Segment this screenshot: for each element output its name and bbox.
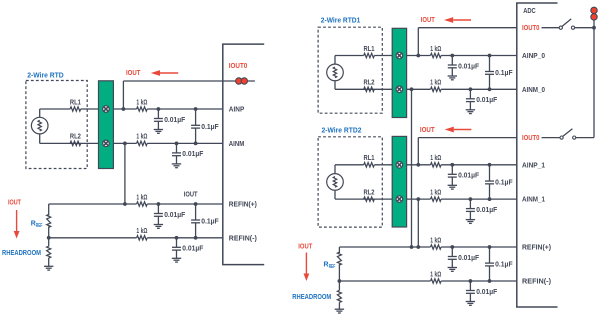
svg-text:0.01µF: 0.01µF (458, 173, 480, 180)
junction cap AINP_1 (450, 163, 454, 167)
wire row AINM_1 left segment (335, 198, 431, 200)
svg-text:0.01µF: 0.01µF (476, 207, 498, 214)
svg-text:IOUT: IOUT (8, 200, 22, 207)
junction 0.1uF REFIN+ (right) (488, 245, 492, 249)
IOUT top wire (right ch1) (418, 137, 517, 139)
svg-text:1 kΩ: 1 kΩ (430, 80, 441, 87)
junction switch ch0 to bus (592, 26, 596, 30)
svg-text:ADC: ADC (523, 8, 536, 15)
IOUT arrow ch0 (453, 19, 471, 21)
svg-text:0.1µF: 0.1µF (495, 180, 513, 187)
left RTD dashed box (26, 81, 87, 169)
svg-text:0.01µF: 0.01µF (476, 289, 498, 296)
wire RTD top stub (left) (39, 109, 41, 117)
RTD sensor (left) (31, 117, 48, 134)
svg-text:RHEADROOM: RHEADROOM (2, 250, 41, 257)
junction cap AINM (left) (175, 142, 179, 146)
junction bus REFIN+ a (410, 245, 414, 249)
mux cross symbol row AINM (left) (103, 140, 110, 147)
capacitor 0.01uF row AINM (left) (176, 143, 178, 153)
junction bus AINM_0 (410, 87, 414, 91)
capacitor 0.01uF REFIN+ (right) (451, 247, 453, 257)
wire AINM_0 to REFIN+ vertical bus (411, 89, 413, 247)
svg-text:IOUT0: IOUT0 (522, 135, 540, 142)
svg-text:AINM_0: AINM_0 (522, 87, 545, 94)
svg-text:RL2: RL2 (364, 189, 375, 196)
IOUT vertical stub (right ch1) (417, 138, 419, 165)
ADC partial box (right) (517, 3, 558, 307)
capacitor 0.1uF ch1 (489, 165, 491, 181)
capacitor 0.01uF AINM_0 (469, 89, 471, 99)
capacitor 0.1uF REFIN (right) (489, 247, 491, 263)
svg-text:1 kΩ: 1 kΩ (136, 194, 147, 201)
capacitor 0.01uF REFIN- (right) (469, 281, 471, 291)
RTD1 dashed box (318, 27, 382, 113)
resistor RL1 (RTD2) (364, 163, 375, 167)
svg-text:RL1: RL1 (364, 155, 375, 162)
svg-text:IOUT: IOUT (420, 127, 435, 134)
mux bar (left) (99, 81, 114, 169)
resistor 1k REFIN- (right) (430, 278, 441, 283)
wire row AINP right segment (147, 108, 223, 110)
capacitor 0.01uF REFIN+ (left) (157, 204, 159, 214)
ground RHEADROOM (left) (44, 265, 53, 267)
resistor RL2 (RTD2) (364, 197, 375, 201)
junction 0.1uF REFIN- (right) (488, 279, 492, 283)
svg-text:0.01µF: 0.01µF (458, 255, 480, 262)
wire AINM to REFIN+ vertical (left) (124, 143, 126, 204)
resistor 1k REFIN+ (left) (137, 201, 148, 206)
red terminal dot top (right) (591, 7, 597, 13)
capacitor 0.01uF AINM_1 (469, 199, 471, 209)
capacitor 0.01uF AINP_0 (451, 56, 453, 66)
junction cap REFIN- (right) (469, 279, 473, 283)
RTD2 sensor (327, 174, 344, 191)
svg-text:2-Wire RTD2: 2-Wire RTD2 (322, 125, 362, 134)
RTD1 sensor (327, 64, 344, 81)
IOUT arrow top (left) (160, 72, 178, 74)
svg-text:AINP_0: AINP_0 (522, 53, 545, 60)
resistor 1k REFIN+ (right) (430, 244, 441, 249)
IOUT vertical stub (right ch0) (417, 28, 419, 56)
mux bar (RTD2) (392, 136, 406, 227)
wire RTD2 bottom stub (334, 190, 336, 199)
wire REFIN- row (right) (339, 280, 516, 282)
wire REFIN+ row (right) (339, 246, 516, 248)
resistor RL2 (RTD1) (364, 87, 375, 91)
svg-text:1 kΩ: 1 kΩ (430, 155, 441, 162)
RTD2 dashed box (318, 137, 382, 227)
wire AINM_1 to REFIN+ vertical (417, 199, 419, 247)
resistor RREF (left) (48, 204, 50, 215)
junction bus2 AINM (left) (123, 142, 127, 146)
svg-text:REF: REF (36, 223, 43, 229)
svg-text:0.1µF: 0.1µF (201, 124, 219, 131)
capacitor 0.01uF REFIN- (left) (176, 238, 178, 248)
wire row AINP_0 left segment (335, 55, 364, 57)
junction stub AINM_1 (416, 197, 420, 201)
svg-text:REFIN(-): REFIN(-) (229, 235, 257, 242)
junction 0.1uF AINP_0 (488, 54, 492, 58)
wire row AINP left segment (40, 108, 70, 110)
svg-text:REFIN(-): REFIN(-) (522, 279, 551, 286)
IOUT0 pin stub with jumper (left) (223, 80, 255, 82)
wire row AINP_0 right segment (441, 55, 517, 57)
junction 0.1uF AINM_0 (488, 87, 492, 91)
wire REFIN- row (left) (49, 237, 223, 239)
svg-text:AINP: AINP (229, 107, 245, 114)
mux cross symbol AINP_1 (396, 162, 403, 169)
wire row AINM_0 left segment (335, 88, 431, 90)
svg-text:1 kΩ: 1 kΩ (430, 237, 441, 244)
svg-text:1 kΩ: 1 kΩ (430, 46, 441, 53)
svg-text:1 kΩ: 1 kΩ (430, 271, 441, 278)
red terminal dot bottom (right) (591, 14, 597, 20)
svg-text:0.1µF: 0.1µF (201, 218, 219, 225)
svg-text:1 kΩ: 1 kΩ (136, 134, 147, 141)
wire row AINM left segment (40, 142, 137, 144)
svg-text:AINM_1: AINM_1 (522, 197, 545, 204)
capacitor 0.1uF AINP-AINM (left) (195, 109, 197, 125)
mux cross symbol AINM_1 (396, 196, 403, 203)
switch IOUT0 ch1 (542, 137, 560, 139)
wire row AINP_1 left segment (335, 164, 364, 166)
IOUT down arrow (left) (16, 210, 18, 231)
right-side bus (593, 10, 595, 137)
mux cross symbol AINM_0 (396, 86, 403, 93)
capacitor 0.01uF row AINP (left) (157, 109, 159, 119)
svg-text:AINM: AINM (229, 141, 245, 148)
junction 0.1uF REFIN- (left) (194, 236, 198, 240)
junction cap AINP_0 (450, 54, 454, 58)
resistor 1k row AINM (left) (137, 141, 148, 145)
junction 0.1uF AINP (left) (194, 107, 198, 111)
wire row AINP_1 mid segment (374, 164, 430, 166)
svg-text:RL2: RL2 (364, 80, 375, 87)
junction IOUT-AINP_1 (416, 163, 420, 167)
IOUT top wire (left) (123, 80, 222, 82)
wire RTD2 top stub (334, 165, 336, 174)
switch IOUT0 ch0 (542, 27, 560, 29)
svg-text:AINP_1: AINP_1 (522, 162, 545, 169)
resistor 1k REFIN- (left) (137, 235, 148, 240)
svg-text:0.01µF: 0.01µF (164, 117, 186, 124)
wire RTD bottom stub (left) (39, 134, 41, 144)
svg-text:0.01µF: 0.01µF (182, 246, 204, 253)
resistor 1k AINP_0 (431, 53, 442, 57)
junction 0.1uF AINP_1 (488, 163, 492, 167)
resistor RREF (right) (338, 247, 340, 253)
red terminal dot 2 (left) (241, 78, 247, 84)
wire row AINP_1 right segment (441, 164, 517, 166)
wire RTD1 bottom stub (334, 81, 336, 90)
svg-text:REFIN(+): REFIN(+) (229, 202, 257, 209)
svg-text:0.1µF: 0.1µF (495, 70, 513, 77)
svg-text:0.01µF: 0.01µF (182, 151, 204, 158)
svg-text:0.1µF: 0.1µF (495, 262, 513, 269)
svg-text:IOUT: IOUT (298, 243, 313, 250)
resistor 1k AINM_0 (431, 87, 442, 91)
svg-text:1 kΩ: 1 kΩ (430, 189, 441, 196)
IOUT arrow ch1 (454, 129, 472, 131)
svg-text:REF: REF (329, 264, 336, 270)
svg-text:0.01µF: 0.01µF (476, 97, 498, 104)
junction RREF bottom (left) (47, 236, 51, 240)
svg-text:1 kΩ: 1 kΩ (136, 99, 147, 106)
junction 0.1uF AINM (left) (194, 142, 198, 146)
ground RHEADROOM (right) (335, 308, 344, 310)
ADC partial box (left) (223, 44, 264, 265)
svg-text:0.01µF: 0.01µF (458, 63, 480, 70)
svg-text:RHEADROOM: RHEADROOM (292, 294, 331, 301)
svg-text:RL2: RL2 (70, 134, 81, 141)
mux cross symbol AINP_0 (396, 52, 403, 59)
svg-text:IOUT0: IOUT0 (229, 63, 248, 70)
svg-text:IOUT: IOUT (126, 70, 141, 77)
resistor 1k AINP_1 (431, 163, 442, 167)
svg-text:RL1: RL1 (70, 99, 81, 106)
junction cap REFIN+ (right) (450, 245, 454, 249)
junction cap REFIN- (left) (175, 236, 179, 240)
resistor RL1 (RTD1) (364, 53, 375, 57)
svg-text:2-Wire RTD1: 2-Wire RTD1 (321, 16, 361, 25)
svg-text:0.01µF: 0.01µF (164, 212, 186, 219)
IOUT vertical stub (left) (122, 81, 124, 109)
wire row AINM_0 right segment (441, 88, 517, 90)
svg-text:1 kΩ: 1 kΩ (136, 228, 147, 235)
capacitor 0.1uF REFIN (left) (195, 204, 197, 220)
wire REFIN+ row (left) (49, 203, 223, 205)
wire row AINP_0 mid segment (374, 55, 430, 57)
svg-text:IOUT0: IOUT0 (522, 25, 540, 32)
junction RREF bottom (right) (338, 279, 342, 283)
junction cap REFIN+ (left) (157, 202, 161, 206)
IOUT top wire (right ch0) (418, 27, 517, 29)
svg-text:REFIN(+): REFIN(+) (522, 245, 551, 252)
mux cross symbol row AINP (left) (103, 106, 110, 113)
wire row AINM right segment (147, 142, 223, 144)
junction IOUT-AINP (left) (122, 107, 126, 111)
resistor RHEADROOM (right) (338, 281, 340, 290)
junction bus2 REFIN+ (left) (123, 202, 127, 206)
junction 0.1uF AINM_1 (488, 197, 492, 201)
resistor 1k AINM_1 (431, 197, 442, 201)
svg-text:2-Wire RTD: 2-Wire RTD (27, 71, 64, 80)
junction cap AINM_0 (469, 87, 473, 91)
junction cap AINP (left) (157, 107, 161, 111)
wire RTD1 top stub (334, 56, 336, 65)
junction cap AINM_1 (469, 197, 473, 201)
red terminal dot 1 (left) (236, 78, 242, 84)
capacitor 0.1uF ch0 (489, 56, 491, 72)
svg-text:RL1: RL1 (364, 46, 375, 53)
resistor RL1 (left) (70, 107, 81, 111)
junction bus REFIN+ b (416, 245, 420, 249)
mux bar (RTD1) (392, 28, 406, 117)
resistor RHEADROOM (left) (48, 238, 50, 246)
svg-text:IOUT: IOUT (184, 191, 198, 198)
resistor 1k row AINP (left) (137, 107, 148, 111)
wire row AINM_1 right segment (441, 198, 517, 200)
IOUT down arrow (right) (305, 253, 307, 274)
svg-text:IOUT: IOUT (421, 17, 436, 24)
junction IOUT-AINP_0 (416, 54, 420, 58)
capacitor 0.01uF AINP_1 (451, 165, 453, 175)
wire row AINP mid segment (81, 108, 137, 110)
resistor RL2 (left) (70, 141, 81, 145)
junction 0.1uF REFIN+ (left) (194, 202, 198, 206)
